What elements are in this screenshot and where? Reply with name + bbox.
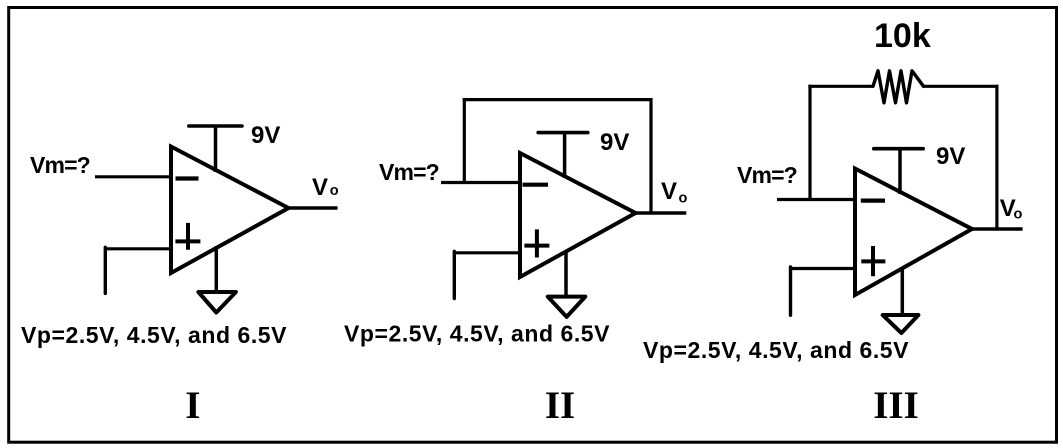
power supply 9V bar (circuit II) (538, 131, 588, 135)
svg-text:Vp=2.5V, 4.5V, and 6.5V: Vp=2.5V, 4.5V, and 6.5V (344, 321, 610, 347)
svg-text:I: I (185, 384, 200, 427)
wire op-amp to ground (circuit I) (215, 246, 219, 293)
svg-text:9V: 9V (251, 122, 280, 149)
wire feedback left vertical (circuit III) (808, 85, 811, 201)
wire feedback left vertical (circuit II) (463, 98, 466, 184)
wire feedback right vertical (circuit II) (649, 98, 652, 213)
wire output Vo (circuit II) (636, 211, 687, 215)
wire 9V supply to op-amp (circuit I) (214, 126, 218, 172)
wire Vp vertical drop (circuit II) (453, 251, 456, 298)
wire inverting input (circuit I) (95, 175, 173, 178)
wire feedback top right (circuit III) (924, 85, 999, 88)
op-amp U1 non-inverting pin plus sign (175, 223, 200, 250)
wire feedback right vertical (circuit III) (995, 85, 998, 229)
svg-text:o: o (679, 191, 688, 207)
svg-text:o: o (330, 183, 339, 199)
svg-text:Vm=?: Vm=? (379, 159, 439, 185)
svg-text:II: II (545, 384, 575, 427)
ground (circuit II) (548, 297, 586, 317)
wire Vp vertical drop (circuit I) (104, 247, 107, 293)
ground (circuit III) (883, 315, 919, 333)
svg-text:10k: 10k (874, 17, 931, 55)
wire non-inverting input (circuit I) (105, 247, 173, 250)
op-amp U3 (855, 169, 972, 296)
svg-text:V: V (661, 178, 677, 205)
wire output Vo (circuit III) (972, 227, 1023, 231)
svg-text:9V: 9V (936, 143, 965, 170)
wire op-amp to ground (circuit II) (564, 250, 568, 298)
op-amp U2 (520, 153, 636, 277)
op-amp U3 inverting pin minus sign (861, 199, 885, 203)
op-amp U2 inverting pin minus sign (523, 183, 549, 187)
svg-text:III: III (873, 384, 919, 427)
wire 9V supply to op-amp (circuit II) (563, 133, 567, 178)
power supply 9V bar (circuit III) (874, 147, 923, 151)
svg-text:Vm=?: Vm=? (30, 152, 90, 178)
wire inverting input (circuit III) (777, 198, 857, 201)
svg-text:9V: 9V (600, 129, 629, 156)
op-amp U2 non-inverting pin plus sign (524, 229, 549, 257)
wire non-inverting input (circuit II) (454, 251, 522, 254)
resistor R1 10k (873, 71, 924, 103)
svg-text:V: V (312, 174, 328, 201)
svg-text:o: o (1014, 207, 1023, 223)
wire feedback top (circuit II) (463, 98, 653, 101)
wire non-inverting input (circuit III) (791, 267, 857, 270)
op-amp U1 inverting pin minus sign (176, 176, 199, 180)
wire feedback top left (circuit III) (808, 85, 873, 88)
wire Vp vertical drop (circuit III) (789, 267, 792, 315)
wire op-amp to ground (circuit III) (901, 267, 905, 316)
op-amp U1 (171, 147, 289, 274)
wire 9V supply to op-amp (circuit III) (898, 149, 902, 194)
svg-text:Vp=2.5V, 4.5V, and 6.5V: Vp=2.5V, 4.5V, and 6.5V (643, 337, 909, 363)
wire inverting input (circuit II) (441, 181, 522, 184)
wire output Vo (circuit I) (289, 206, 338, 210)
svg-text:Vm=?: Vm=? (737, 162, 797, 188)
ground (circuit I) (198, 292, 236, 313)
svg-text:Vp=2.5V, 4.5V, and 6.5V: Vp=2.5V, 4.5V, and 6.5V (21, 322, 287, 348)
op-amp U3 non-inverting pin plus sign (861, 246, 885, 276)
power supply 9V bar (circuit I) (189, 124, 242, 128)
